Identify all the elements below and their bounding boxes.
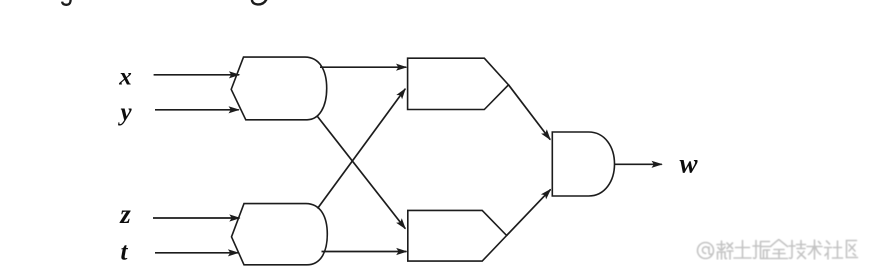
text fragment (y descender, cropped line above) — [62, 0, 71, 5]
术 — [807, 240, 822, 259]
wire output w — [615, 163, 662, 165]
土 — [734, 241, 751, 259]
金 — [771, 240, 788, 259]
稀 — [717, 241, 733, 259]
区 — [847, 241, 858, 258]
@ — [698, 243, 714, 259]
text fragment (g descender, cropped line above) — [252, 0, 267, 4]
gate U4 (bottom-middle pentagon) — [408, 210, 507, 261]
svg-text:z: z — [119, 199, 131, 229]
and-gate U5 — [552, 132, 614, 196]
掘 — [753, 241, 770, 259]
wire input x — [154, 74, 240, 76]
svg-text:w: w — [679, 148, 698, 178]
wire input t — [155, 252, 238, 254]
gate U1 (top-left, inputs x y) — [231, 57, 327, 120]
wire input y — [155, 109, 239, 111]
wire U4 to U5 — [507, 189, 551, 235]
svg-text:t: t — [121, 238, 129, 265]
wire U2 to U4 (bottom horizontal) — [322, 251, 407, 253]
技 — [789, 241, 806, 259]
社 — [825, 241, 843, 259]
wire input z — [153, 217, 240, 219]
watermark @稀土掘金技术社区 — [698, 240, 858, 260]
wire U3 to U5 — [509, 85, 551, 140]
wire U1 to U3 (top horizontal) — [320, 66, 406, 68]
svg-text:y: y — [117, 99, 132, 126]
svg-text:x: x — [118, 64, 132, 91]
gate U2 (bottom-left, inputs z t) — [232, 204, 328, 265]
gate U3 (top-middle pentagon) — [408, 58, 509, 109]
wire U2 to U3 (crossing diagonal up) — [318, 89, 406, 209]
wire U1 to U4 (crossing diagonal down) — [318, 117, 406, 229]
